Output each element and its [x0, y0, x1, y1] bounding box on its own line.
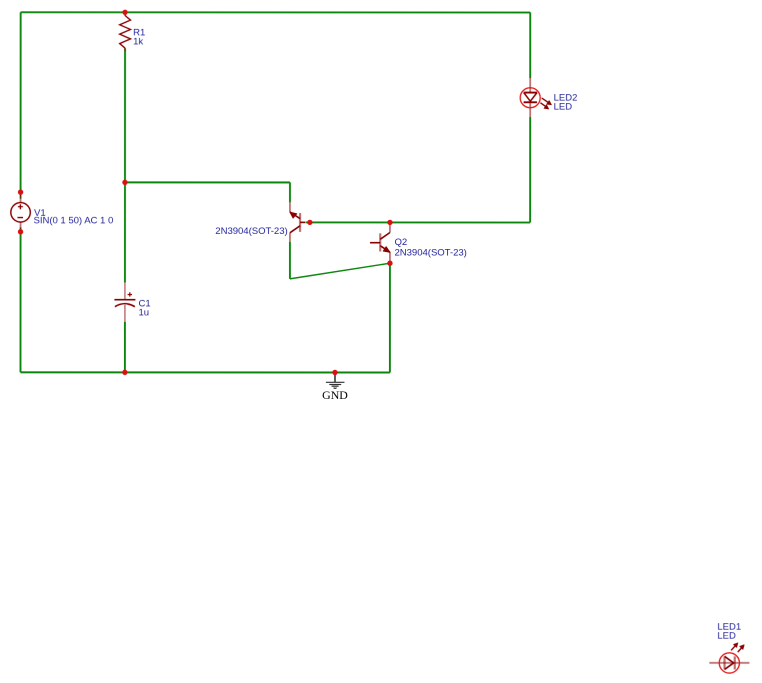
svg-text:GND: GND	[322, 388, 348, 402]
LED2 circle	[520, 88, 540, 108]
node dot mid column	[122, 180, 127, 185]
LED2 emission arrow 2	[540, 103, 546, 107]
node dot Q1 base	[307, 220, 312, 225]
Q1 emitter arrow	[290, 212, 297, 218]
node dot GND	[332, 370, 337, 375]
wire left lower	[19, 232, 21, 372]
svg-text:1k: 1k	[133, 36, 143, 47]
svg-text:LED: LED	[554, 101, 573, 112]
voltage source V1	[20, 192, 22, 232]
wire diagonal Q1-to-Q2	[290, 263, 390, 279]
wire Q1 collector drop	[289, 242, 291, 279]
svg-text:LED: LED	[717, 631, 736, 642]
LED2	[524, 78, 537, 117]
node dot Q2 emitter	[387, 261, 392, 266]
LED2 emission arrow 1	[542, 98, 549, 103]
ground symbol	[326, 373, 345, 388]
svg-text:2N3904(SOT-23): 2N3904(SOT-23)	[215, 226, 287, 237]
wire Q1 emitter drop	[289, 182, 291, 202]
LED1 body	[709, 656, 749, 669]
transistor Q2 (2N3904)	[370, 222, 390, 263]
wire C1 bottom	[124, 322, 126, 373]
svg-text:SIN(0 1 50) AC 1 0: SIN(0 1 50) AC 1 0	[34, 216, 114, 227]
node dot V1 plus	[18, 189, 23, 194]
wire top bus	[21, 11, 531, 13]
node dot Q2 collector	[387, 220, 392, 225]
svg-text:1u: 1u	[139, 307, 150, 318]
wire mid horizontal	[125, 181, 290, 183]
LED1 circle	[719, 653, 739, 673]
wire left upper	[20, 12, 22, 192]
resistor R1	[124, 12, 126, 51]
wire R1 to C1 column	[124, 51, 126, 282]
transistor Q1 (2N3904, rotated 180)	[290, 202, 306, 242]
LED1 emission arrow 1	[731, 645, 736, 650]
node dot C1 bottom	[122, 370, 127, 375]
wire bottom bus	[20, 371, 389, 373]
wire Q2 emitter to bottom	[389, 263, 391, 372]
node dot R1 top	[122, 10, 127, 15]
wire right vertical upper	[529, 12, 531, 78]
LED1 emission arrow 2	[738, 648, 742, 652]
wire right vertical lower	[529, 117, 531, 222]
svg-text:2N3904(SOT-23): 2N3904(SOT-23)	[395, 247, 467, 258]
node dot V1 minus	[18, 229, 23, 234]
wire base bus	[306, 221, 530, 223]
capacitor C1	[114, 282, 135, 321]
Q2 emitter arrow	[383, 247, 390, 253]
